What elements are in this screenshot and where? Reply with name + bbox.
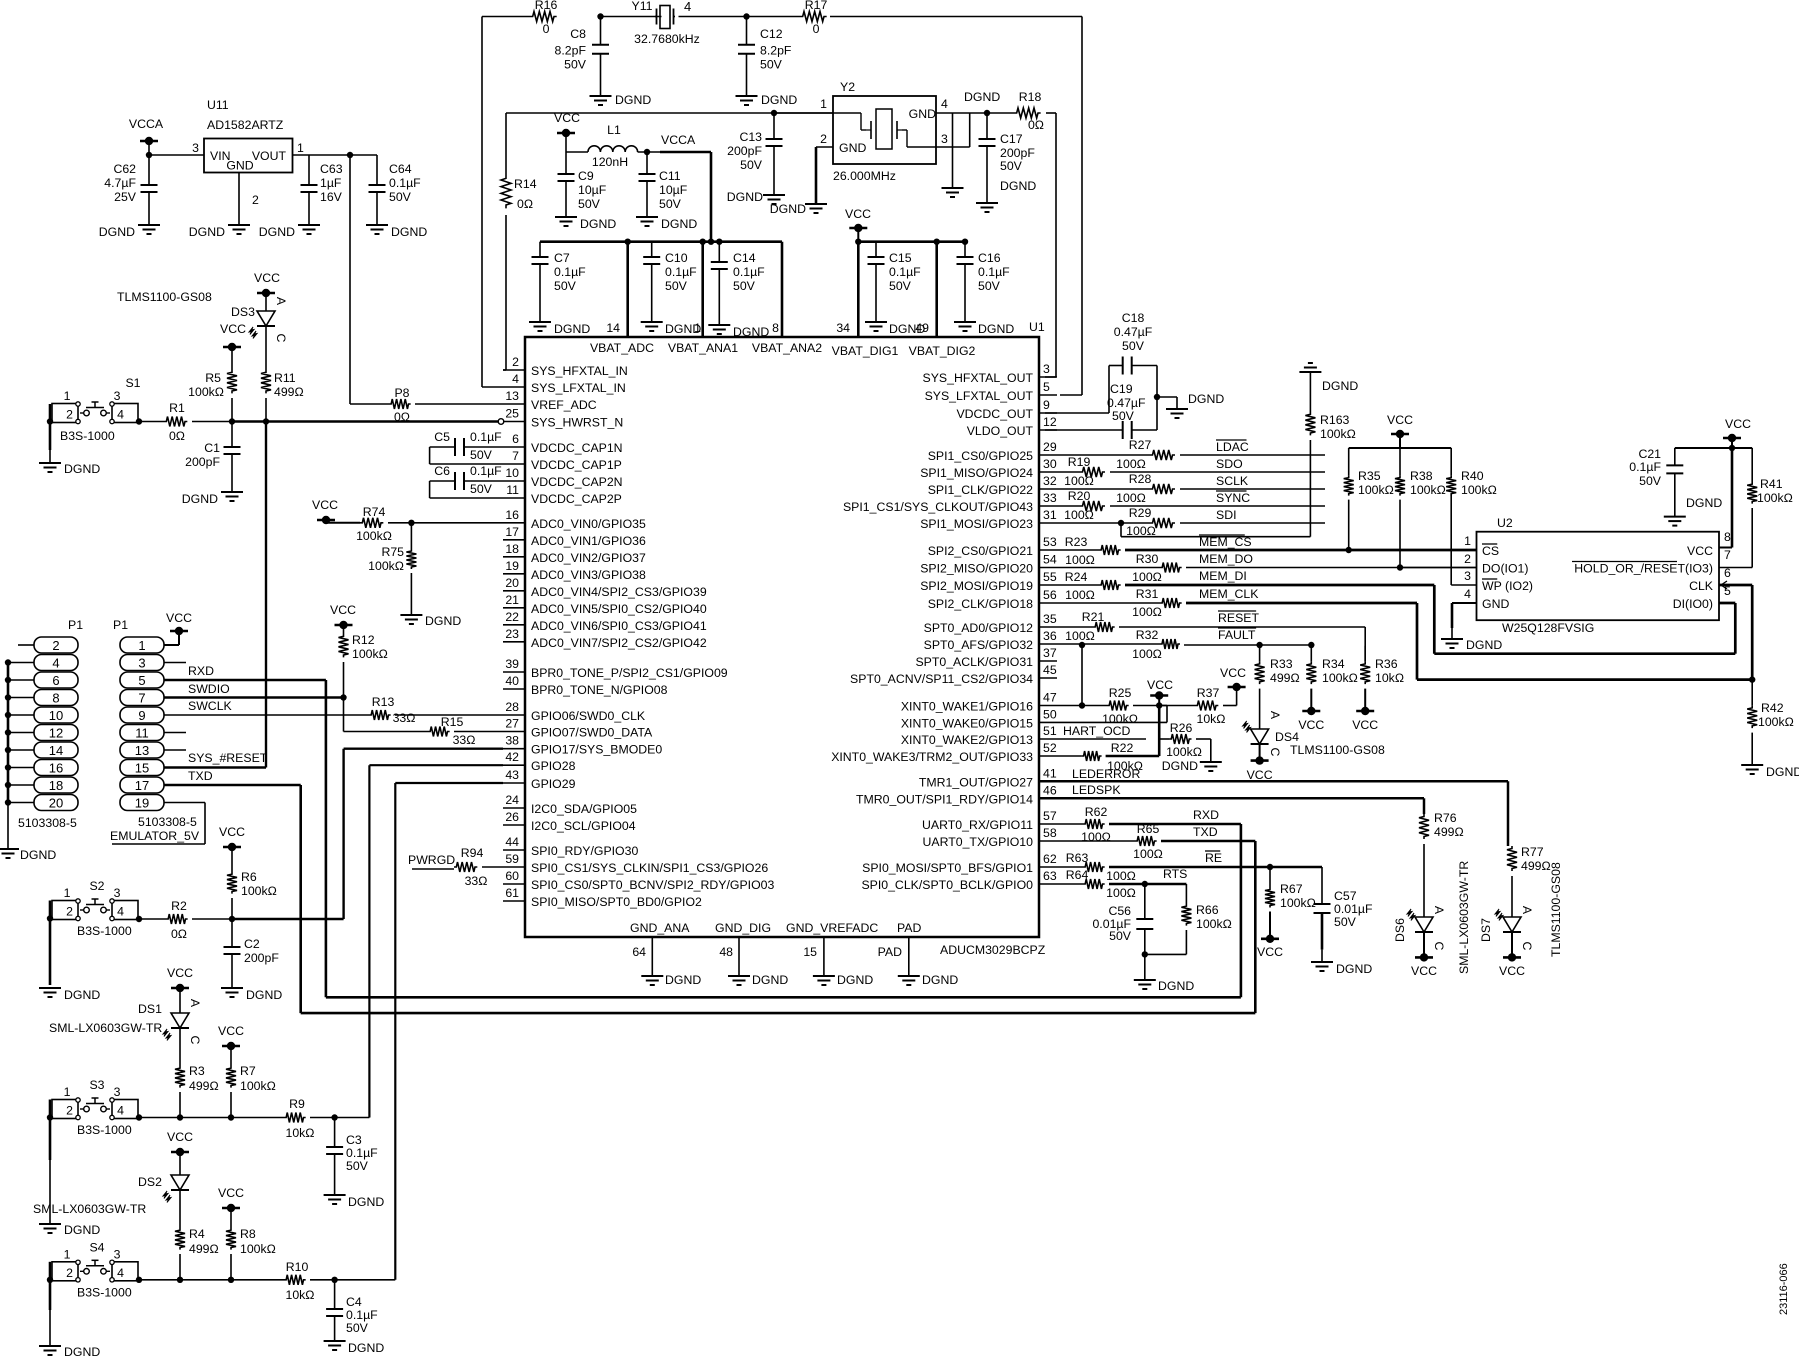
svg-text:DGND: DGND — [20, 848, 56, 862]
svg-text:VBAT_DIG1: VBAT_DIG1 — [832, 344, 899, 358]
power VCC U2 — [1723, 417, 1751, 448]
power VCC DS6 — [1411, 932, 1437, 978]
svg-text:46: 46 — [1043, 783, 1057, 797]
capacitor C9 — [558, 152, 607, 217]
svg-text:9: 9 — [138, 708, 145, 723]
switch S3 — [52, 1078, 138, 1137]
svg-text:C1: C1 — [204, 441, 220, 455]
power VCC R12 — [330, 603, 356, 634]
label MEM_DI — [1199, 569, 1247, 583]
wire DS2 to R4 — [179, 1190, 181, 1228]
resistor R77 — [1507, 845, 1551, 917]
svg-text:R36: R36 — [1375, 657, 1398, 671]
svg-text:SPI0_CS1/SYS_CLKIN/SPI1_CS3/GP: SPI0_CS1/SYS_CLKIN/SPI1_CS3/GPIO26 — [531, 861, 768, 875]
connector P1 pin 1 — [120, 637, 164, 653]
svg-text:VCC: VCC — [845, 207, 871, 221]
label EMULATOR_5V — [110, 829, 200, 843]
svg-text:53: 53 — [1043, 535, 1057, 549]
svg-text:R67: R67 — [1280, 882, 1303, 896]
svg-text:5103308-5: 5103308-5 — [18, 816, 77, 830]
svg-text:C: C — [274, 334, 288, 343]
label TLMS1100-GS08 DS7 — [1549, 862, 1563, 957]
svg-text:3: 3 — [1043, 362, 1050, 376]
wire U2 pin4 gnd — [1452, 603, 1477, 639]
U2 pin 1 CS — [1464, 534, 1499, 558]
capacitor C18 — [1045, 311, 1157, 413]
power VCC pullups — [1387, 413, 1413, 448]
U1 pin 60 SPI0_CS0/SPT0_BCNV/SPI2_RDY/GPIO03 — [503, 869, 774, 892]
resistor R4 — [175, 1227, 219, 1280]
svg-text:26.000MHz: 26.000MHz — [833, 169, 896, 183]
svg-text:50V: 50V — [578, 197, 601, 211]
svg-text:VDCDC_CAP2P: VDCDC_CAP2P — [531, 492, 622, 506]
label SCLK — [1216, 474, 1249, 488]
label VBAT_ADC — [590, 341, 654, 355]
svg-text:U11: U11 — [207, 98, 229, 112]
svg-text:DGND: DGND — [64, 1223, 100, 1237]
svg-text:VCC: VCC — [1387, 413, 1413, 427]
resistor R21 — [1057, 610, 1115, 643]
U1 pin 46 TMR0_OUT/SPI1_RDY/GPIO14 — [856, 783, 1057, 806]
svg-text:SYS_LFXTAL_IN: SYS_LFXTAL_IN — [531, 381, 626, 395]
svg-text:SPI1_CS1/SYS_CLKOUT/GPIO43: SPI1_CS1/SYS_CLKOUT/GPIO43 — [843, 500, 1033, 514]
svg-text:50V: 50V — [1639, 474, 1662, 488]
label SML-LX0603GW-TR DS1 — [49, 1021, 162, 1035]
connector P1 pin 14 — [34, 742, 78, 758]
wire RESET — [1119, 627, 1365, 662]
U1 pin 42 GPIO28 — [503, 750, 576, 773]
pin 14 VBAT_ADC stub — [606, 239, 631, 338]
svg-text:C15: C15 — [889, 251, 912, 265]
svg-text:2: 2 — [66, 408, 73, 422]
svg-text:3: 3 — [192, 141, 199, 155]
svg-text:DGND: DGND — [1466, 638, 1502, 652]
ground C13 DGND — [727, 190, 785, 204]
svg-text:32: 32 — [1043, 474, 1057, 488]
svg-text:2: 2 — [52, 638, 59, 653]
svg-text:3: 3 — [114, 1085, 121, 1099]
ground C7 DGND — [529, 322, 590, 336]
svg-text:DGND: DGND — [1766, 765, 1799, 779]
svg-text:GND: GND — [1482, 597, 1509, 611]
U1 pin 61 SPI0_MISO/SPT0_BD0/GPIO2 — [503, 886, 702, 909]
U1 pin 43 GPIO29 — [503, 768, 576, 791]
svg-text:VLDO_OUT: VLDO_OUT — [967, 424, 1034, 438]
resistor R74 — [356, 505, 503, 543]
label HART_OCD — [1057, 724, 1146, 739]
svg-text:DGND: DGND — [580, 217, 616, 231]
svg-text:C18: C18 — [1122, 311, 1145, 325]
resistor R15 — [344, 715, 504, 747]
wire P1 pin11 stub — [164, 732, 186, 734]
capacitor C17 — [979, 110, 1036, 203]
resistor R1 — [136, 401, 232, 443]
svg-text:TLMS1100-GS08: TLMS1100-GS08 — [117, 290, 212, 304]
svg-text:8.2pF: 8.2pF — [555, 44, 587, 58]
svg-text:(IO2): (IO2) — [1505, 579, 1533, 593]
svg-text:R9: R9 — [289, 1097, 305, 1111]
svg-text:SWDIO: SWDIO — [188, 682, 230, 696]
IC U1 ADUCM3029BCPZ box — [525, 320, 1046, 957]
svg-text:R65: R65 — [1137, 822, 1160, 836]
svg-text:100Ω: 100Ω — [1106, 869, 1136, 883]
svg-text:499Ω: 499Ω — [189, 1242, 219, 1256]
svg-text:4: 4 — [117, 1104, 124, 1118]
svg-text:GPIO17/SYS_BMODE0: GPIO17/SYS_BMODE0 — [531, 743, 662, 757]
resistor R64 — [1057, 868, 1136, 900]
U1 pin 18 ADC0_VIN2/GPIO37 — [503, 542, 646, 565]
connector P1 pin 4 — [34, 655, 78, 671]
svg-text:54: 54 — [1043, 553, 1057, 567]
LED DS1 — [138, 999, 202, 1045]
resistor P8 — [350, 386, 503, 424]
wire VCCA to VIN — [146, 152, 204, 158]
wire TXD right — [301, 841, 1256, 1013]
svg-text:VCC: VCC — [554, 111, 580, 125]
label VBAT_ANA1 — [668, 341, 738, 355]
svg-text:26: 26 — [505, 810, 519, 824]
svg-text:ADC0_VIN4/SPI2_CS3/GPIO39: ADC0_VIN4/SPI2_CS3/GPIO39 — [531, 585, 707, 599]
ground C57 DGND — [1311, 962, 1372, 976]
resistor R33 — [1255, 645, 1300, 685]
svg-text:VBAT_ANA1: VBAT_ANA1 — [668, 341, 738, 355]
U1 pin 31 SPI1_MOSI/GPIO23 — [920, 508, 1057, 531]
svg-text:100Ω: 100Ω — [1081, 830, 1111, 844]
svg-text:100kΩ: 100kΩ — [1758, 715, 1794, 729]
power VCC R74 — [312, 498, 360, 524]
U1 pin 54 SPI2_MISO/GPIO20 — [920, 553, 1057, 576]
ground C15 DGND — [865, 322, 925, 336]
node C4 junction — [331, 1277, 337, 1283]
wire VCCA down to P8 — [349, 155, 351, 404]
svg-text:C: C — [1432, 942, 1446, 951]
svg-text:47: 47 — [1043, 691, 1057, 705]
svg-text:DGND: DGND — [661, 217, 697, 231]
junction R163 tap — [1118, 520, 1311, 537]
label SML-LX0603GW-TR DS2 — [33, 1202, 146, 1216]
capacitor C19 — [1045, 382, 1157, 439]
node SYS_HWRST — [229, 398, 269, 425]
svg-text:DO(IO1): DO(IO1) — [1482, 562, 1528, 576]
svg-text:200pF: 200pF — [1000, 146, 1035, 160]
ground S2 DGND — [39, 988, 100, 1002]
capacitor C3 — [326, 1118, 378, 1196]
LED DS6 — [1393, 906, 1446, 951]
svg-text:ADC0_VIN0/GPIO35: ADC0_VIN0/GPIO35 — [531, 517, 646, 531]
U1 pin 32 SPI1_CLK/GPIO22 — [928, 474, 1057, 497]
svg-text:VDCDC_CAP1P: VDCDC_CAP1P — [531, 458, 622, 472]
resistor R8 — [226, 1227, 276, 1280]
svg-text:C8: C8 — [570, 27, 586, 41]
svg-text:R76: R76 — [1434, 811, 1457, 825]
resistor R30 — [1057, 552, 1182, 584]
svg-text:VDCDC_OUT: VDCDC_OUT — [956, 407, 1033, 421]
svg-text:100Ω: 100Ω — [1065, 588, 1095, 602]
svg-text:0Ω: 0Ω — [1028, 118, 1044, 132]
svg-text:DI(IO0): DI(IO0) — [1673, 597, 1713, 611]
svg-text:P1: P1 — [113, 618, 128, 632]
wire pullup bar — [1349, 447, 1452, 449]
svg-text:16: 16 — [49, 761, 63, 776]
svg-text:DS4: DS4 — [1275, 730, 1299, 744]
svg-text:S1: S1 — [125, 376, 140, 390]
connector P1 pin 13 — [120, 742, 164, 758]
svg-text:MEM_DO: MEM_DO — [1199, 552, 1253, 566]
svg-text:0.1µF: 0.1µF — [389, 176, 421, 190]
U1 pin 4 SYS_LFXTAL_IN — [503, 372, 626, 395]
resistor R17 — [800, 0, 827, 36]
wire U11 GND pin2 — [238, 173, 240, 226]
svg-text:200pF: 200pF — [244, 951, 279, 965]
node R2 junction — [229, 916, 235, 922]
svg-text:7: 7 — [512, 449, 519, 463]
resistor R28 — [1057, 472, 1325, 505]
resistor R23 — [1057, 535, 1121, 567]
svg-text:LEDSPK: LEDSPK — [1072, 783, 1121, 797]
U2 pin 3 WP — [1464, 569, 1533, 593]
capacitor C7 — [532, 242, 587, 322]
svg-text:VCC: VCC — [1257, 945, 1283, 959]
svg-text:R94: R94 — [461, 846, 484, 860]
svg-text:VDCDC_CAP2N: VDCDC_CAP2N — [531, 475, 623, 489]
svg-text:DGND: DGND — [259, 225, 295, 239]
svg-text:55: 55 — [1043, 570, 1057, 584]
svg-text:VCC: VCC — [1499, 964, 1525, 978]
svg-text:SPI0_MOSI/SPT0_BFS/GPIO1: SPI0_MOSI/SPT0_BFS/GPIO1 — [862, 861, 1033, 875]
svg-text:PAD: PAD — [897, 921, 921, 935]
wire Y2 pin4 gnd rail — [936, 112, 1014, 114]
U1 pin 10 VDCDC_CAP2N — [503, 466, 623, 489]
svg-text:63: 63 — [1043, 869, 1057, 883]
svg-text:VDCDC_CAP1N: VDCDC_CAP1N — [531, 441, 623, 455]
svg-text:45: 45 — [1043, 663, 1057, 677]
svg-text:50V: 50V — [1122, 339, 1145, 353]
svg-text:12: 12 — [1043, 415, 1057, 429]
U1 pin 12 VLDO_OUT — [967, 415, 1057, 438]
svg-text:DGND: DGND — [761, 93, 797, 107]
svg-text:RTS: RTS — [1163, 867, 1187, 881]
label TXD right — [1193, 825, 1218, 839]
svg-text:1: 1 — [820, 97, 827, 111]
svg-text:DS2: DS2 — [138, 1175, 162, 1189]
svg-text:0Ω: 0Ω — [169, 429, 185, 443]
svg-text:0Ω: 0Ω — [171, 927, 187, 941]
ground C8 DGND — [590, 93, 652, 107]
wire DS1 to R3 — [179, 1028, 181, 1066]
svg-text:DGND: DGND — [978, 322, 1014, 336]
svg-text:1: 1 — [297, 141, 304, 155]
U1 pin 47 XINT0_WAKE1/GPIO16 — [901, 691, 1057, 714]
svg-text:HOLD_OR_/RESET(IO3): HOLD_OR_/RESET(IO3) — [1574, 562, 1713, 576]
wire S4 gnd — [47, 1262, 53, 1346]
svg-text:16V: 16V — [320, 190, 343, 204]
svg-text:DGND: DGND — [391, 225, 427, 239]
ground R42 DGND — [1741, 765, 1799, 779]
resistor R75 — [368, 523, 416, 615]
resistor R37 — [1195, 686, 1237, 726]
svg-text:61: 61 — [505, 886, 519, 900]
svg-text:R33: R33 — [1270, 657, 1293, 671]
svg-text:VCC: VCC — [1220, 666, 1246, 680]
svg-text:39: 39 — [505, 657, 519, 671]
svg-text:TXD: TXD — [188, 769, 213, 783]
svg-text:100kΩ: 100kΩ — [1757, 491, 1793, 505]
wire R25 node down — [1158, 706, 1161, 757]
svg-text:C56: C56 — [1108, 904, 1131, 918]
power VCCA U11 — [129, 117, 164, 155]
connector P1 pin 15 — [120, 760, 164, 776]
U1 pin 11 VDCDC_CAP2P — [503, 483, 622, 506]
svg-text:2: 2 — [512, 355, 519, 369]
svg-text:100Ω: 100Ω — [1116, 457, 1146, 471]
wire U2 pin3 WP stub — [1451, 495, 1476, 586]
power VCC P1 pin1 — [164, 611, 192, 645]
svg-text:C6: C6 — [434, 464, 450, 478]
LED DS7 — [1479, 906, 1534, 951]
capacitor C11 — [639, 149, 688, 217]
resistor R27 — [1057, 438, 1325, 471]
label LDAC — [1216, 440, 1249, 454]
U1 pin 26 I2C0_SCL/GPIO04 — [503, 810, 636, 833]
svg-text:3: 3 — [114, 1247, 121, 1261]
svg-text:DGND: DGND — [964, 90, 1000, 104]
svg-text:100kΩ: 100kΩ — [240, 1242, 276, 1256]
svg-text:C64: C64 — [389, 162, 412, 176]
capacitor C21 — [1629, 447, 1732, 517]
svg-text:499Ω: 499Ω — [1434, 825, 1464, 839]
connector P1 left label — [68, 618, 83, 632]
svg-text:TMR0_OUT/SPI1_RDY/GPIO14: TMR0_OUT/SPI1_RDY/GPIO14 — [856, 792, 1033, 806]
svg-text:GND_ANA: GND_ANA — [630, 921, 690, 935]
wire P1 even bus — [5, 659, 34, 849]
U1 pin 19 ADC0_VIN3/GPIO38 — [503, 559, 646, 582]
svg-text:2: 2 — [820, 132, 827, 146]
svg-text:DS7: DS7 — [1479, 918, 1493, 942]
resistor R2 — [136, 899, 232, 941]
svg-text:DGND: DGND — [727, 190, 763, 204]
label RXD right — [1193, 808, 1219, 822]
svg-text:10kΩ: 10kΩ — [285, 1288, 314, 1302]
svg-text:R42: R42 — [1761, 701, 1784, 715]
svg-text:PWRGD: PWRGD — [408, 853, 455, 867]
svg-text:VCCA: VCCA — [661, 133, 696, 147]
svg-text:R28: R28 — [1129, 472, 1152, 486]
svg-text:50V: 50V — [733, 279, 756, 293]
svg-text:0.1µF: 0.1µF — [346, 1308, 378, 1322]
svg-text:DS6: DS6 — [1393, 918, 1407, 942]
svg-text:DGND: DGND — [1000, 179, 1036, 193]
U1 pin 64 GND_ANA — [630, 921, 690, 976]
ground C14 DGND — [708, 325, 769, 339]
svg-text:R27: R27 — [1129, 438, 1152, 452]
resistor R11 — [261, 370, 304, 399]
wire P1 pin17 TXD — [164, 769, 301, 1013]
wire MEM_CLK — [1186, 585, 1752, 680]
svg-text:1: 1 — [64, 886, 71, 900]
U1 pin 27 GPIO07/SWD0_DATA — [503, 717, 653, 740]
resistor R12 — [339, 633, 388, 698]
svg-text:27: 27 — [505, 717, 519, 731]
svg-text:MEM_CLK: MEM_CLK — [1199, 587, 1259, 601]
svg-text:SPT0_AD0/GPIO12: SPT0_AD0/GPIO12 — [924, 621, 1034, 635]
svg-text:50V: 50V — [1109, 929, 1132, 943]
svg-text:56: 56 — [1043, 588, 1057, 602]
resistor R5 — [188, 370, 237, 399]
pin 34 VBAT_DIG1 stub — [836, 242, 858, 337]
U1 pin 25 SYS_HWRST_N — [503, 407, 623, 430]
svg-text:DGND: DGND — [64, 988, 100, 1002]
ground C63 DGND — [259, 225, 320, 239]
svg-text:LEDERROR: LEDERROR — [1072, 767, 1140, 781]
svg-text:37: 37 — [1043, 646, 1057, 660]
U2 pin 2 DO — [1464, 552, 1528, 576]
svg-text:RXD: RXD — [1193, 808, 1219, 822]
connector P1 pin 9 — [120, 707, 164, 723]
svg-text:33Ω: 33Ω — [465, 874, 488, 888]
svg-text:SML-LX0603GW-TR: SML-LX0603GW-TR — [1457, 861, 1471, 974]
U1 pin 50 XINT0_WAKE0/GPIO15 — [901, 707, 1057, 730]
ground Y2 pins34 DGND — [942, 188, 964, 197]
svg-text:R5: R5 — [205, 371, 221, 385]
svg-text:11: 11 — [506, 483, 519, 497]
U1 pin 21 ADC0_VIN5/SPI0_CS2/GPIO40 — [503, 593, 707, 616]
svg-text:120nH: 120nH — [592, 155, 628, 169]
ground C16 DGND — [954, 322, 1014, 336]
svg-text:VCC: VCC — [330, 603, 356, 617]
resistor R94 — [454, 846, 503, 888]
svg-text:100kΩ: 100kΩ — [368, 559, 404, 573]
svg-text:100kΩ: 100kΩ — [1410, 483, 1446, 497]
wire S3 net up — [369, 765, 503, 1117]
U1 pin 52 XINT0_WAKE3/TRM2_OUT/GPIO33 — [831, 741, 1057, 764]
capacitor C4 — [326, 1280, 378, 1341]
ground pin15 DGND — [813, 973, 873, 987]
svg-text:18: 18 — [505, 542, 519, 556]
ground P1 DGND — [0, 848, 56, 862]
svg-text:42: 42 — [505, 750, 519, 764]
svg-text:DGND: DGND — [922, 973, 958, 987]
svg-text:GND_DIG: GND_DIG — [715, 921, 771, 935]
capacitor C8 — [555, 17, 609, 97]
wire 32kHz xtal top rail — [482, 16, 1082, 18]
svg-text:XINT0_WAKE3/TRM2_OUT/GPIO33: XINT0_WAKE3/TRM2_OUT/GPIO33 — [831, 750, 1033, 764]
wire VCCA to VBAT — [638, 152, 711, 242]
svg-text:VCC: VCC — [1411, 964, 1437, 978]
pin 8 VBAT_ANA2 stub — [772, 242, 782, 337]
U1 pin 20 ADC0_VIN4/SPI2_CS3/GPIO39 — [503, 576, 707, 599]
svg-text:100Ω: 100Ω — [1116, 491, 1146, 505]
ground C12 DGND — [736, 93, 798, 107]
U2 pin 4 GND — [1464, 587, 1509, 611]
svg-text:VCC: VCC — [218, 1024, 244, 1038]
svg-text:100kΩ: 100kΩ — [356, 529, 392, 543]
svg-text:C9: C9 — [578, 169, 594, 183]
svg-text:AD1582ARTZ: AD1582ARTZ — [207, 118, 284, 132]
U1 pin 36 SPT0_AFS/GPIO32 — [924, 629, 1057, 652]
svg-text:C: C — [188, 1036, 202, 1045]
svg-text:10kΩ: 10kΩ — [1375, 671, 1404, 685]
resistor R22 — [1057, 741, 1159, 773]
svg-text:DGND: DGND — [1686, 496, 1722, 510]
ground S1 DGND — [39, 462, 100, 476]
ground U2 DGND — [1441, 638, 1502, 652]
U1 pin 40 BPR0_TONE_N/GPIO08 — [503, 674, 668, 697]
svg-text:R6: R6 — [241, 870, 257, 884]
connector P1 pin 6 — [34, 672, 78, 688]
svg-text:GND_VREFADC: GND_VREFADC — [786, 921, 878, 935]
svg-text:DGND: DGND — [246, 988, 282, 1002]
svg-text:DGND: DGND — [615, 93, 651, 107]
